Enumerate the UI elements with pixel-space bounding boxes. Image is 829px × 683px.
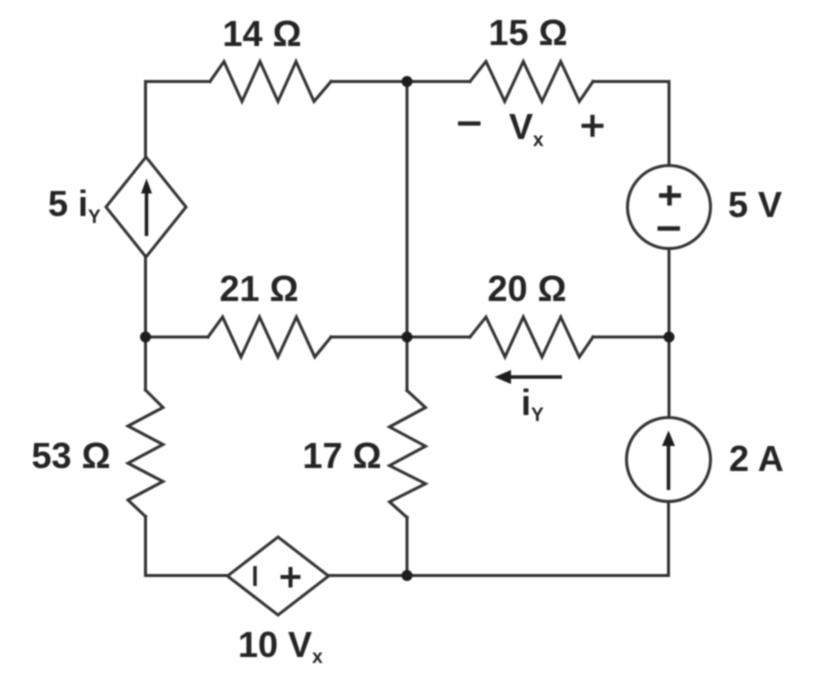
wire right rail mid [668, 249, 671, 338]
wire left rail mid [144, 257, 147, 390]
resistor R 14ohm [210, 62, 331, 102]
wire right rail lower-upper [668, 337, 671, 418]
wire bottom-right horizontal [407, 574, 669, 577]
dependent source U1 diamond 5iY [106, 157, 186, 257]
node B middle-left junction [140, 332, 151, 343]
plus sign inside V1 [659, 186, 681, 206]
wire middle rail lower [406, 518, 409, 576]
svg-text:14 Ω: 14 Ω [223, 13, 302, 54]
resistor R 17ohm [390, 391, 426, 518]
arrow for iY current [495, 370, 563, 384]
arrow inside diamond U1 [141, 179, 152, 237]
wire top-left horizontal [146, 80, 211, 83]
wire left rail upper [144, 82, 147, 158]
label minus of Vx marking [458, 121, 481, 125]
svg-text:20 Ω: 20 Ω [488, 268, 567, 309]
plus sign inside diamond U2 [281, 567, 301, 588]
wire middle rail upper [406, 82, 409, 338]
wire top-right [593, 80, 669, 83]
svg-text:iY: iY [521, 382, 544, 426]
wire middle-right horizontal [593, 336, 669, 339]
resistor R 20ohm [470, 317, 593, 357]
svg-text:2 A: 2 A [729, 438, 784, 479]
resistor R 21ohm [208, 317, 331, 357]
voltage source V1 5V circle [628, 166, 711, 249]
wire bottom-left horizontal [146, 574, 228, 577]
resistor R 53ohm [128, 390, 163, 517]
node C middle-center junction [402, 332, 413, 343]
arrow inside current source I1 [662, 431, 675, 491]
svg-text:15 Ω: 15 Ω [489, 12, 568, 53]
dependent source U2 diamond 10Vx [228, 537, 329, 615]
node A top-middle junction [402, 76, 413, 87]
wire bottom-middle horizontal [329, 574, 408, 577]
node E bottom-middle junction [402, 570, 413, 581]
svg-text:5 iY: 5 iY [48, 183, 101, 228]
svg-text:Vx: Vx [509, 106, 544, 151]
svg-text:10 Vx: 10 Vx [238, 624, 323, 668]
wire top-middle [331, 80, 470, 83]
wire left rail lower [144, 517, 147, 576]
resistor R 15ohm [470, 62, 593, 102]
wire middle-center horizontal [331, 336, 470, 339]
svg-text:21 Ω: 21 Ω [220, 268, 299, 309]
current source I1 2A circle [627, 418, 711, 502]
svg-text:5 V: 5 V [728, 184, 782, 225]
node D middle-right junction [664, 332, 675, 343]
wire middle rail mid [406, 337, 409, 391]
minus bar inside diamond U2 [253, 566, 257, 586]
label plus of Vx marking [582, 115, 604, 137]
svg-text:17 Ω: 17 Ω [303, 435, 382, 476]
wire middle-left horizontal [146, 336, 209, 339]
wire right rail bottom [667, 502, 670, 576]
minus sign inside V1 [658, 226, 681, 231]
wire right rail upper [668, 82, 671, 166]
svg-text:53 Ω: 53 Ω [32, 435, 111, 476]
